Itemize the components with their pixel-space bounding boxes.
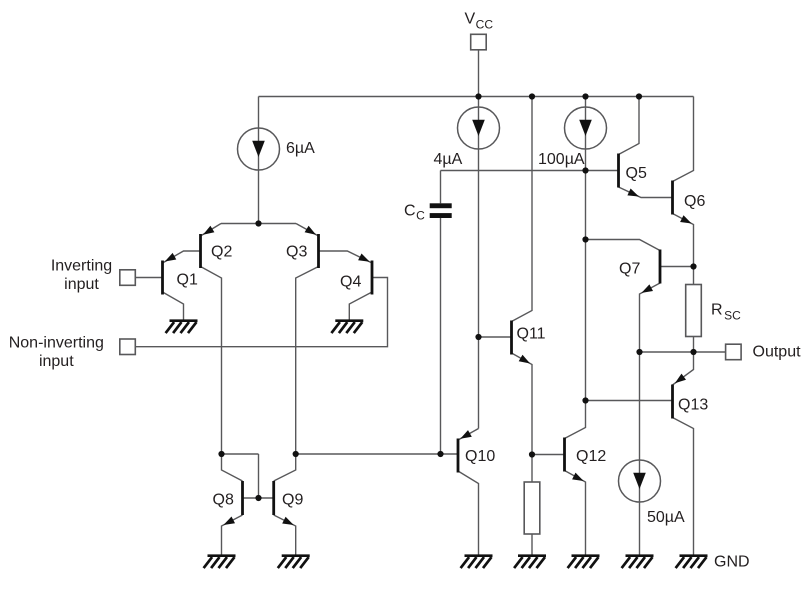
svg-text:Q10: Q10 — [465, 448, 495, 465]
svg-text:RSC: RSC — [711, 302, 741, 323]
svg-text:Q8: Q8 — [213, 492, 234, 509]
svg-text:Inverting: Inverting — [51, 258, 112, 275]
svg-text:Non-inverting: Non-inverting — [9, 334, 104, 351]
svg-text:Q6: Q6 — [684, 193, 705, 210]
svg-text:Q2: Q2 — [211, 244, 232, 261]
svg-text:GND: GND — [714, 554, 750, 571]
svg-text:VCC: VCC — [465, 11, 494, 32]
svg-text:Q7: Q7 — [619, 261, 640, 278]
svg-text:input: input — [64, 276, 99, 293]
svg-text:CC: CC — [404, 202, 425, 222]
svg-text:Q1: Q1 — [177, 271, 198, 288]
svg-text:100µA: 100µA — [538, 151, 585, 168]
svg-text:Output: Output — [753, 344, 802, 361]
svg-text:input: input — [39, 353, 74, 370]
svg-text:50µA: 50µA — [647, 509, 685, 526]
svg-text:Q9: Q9 — [282, 492, 303, 509]
svg-text:Q12: Q12 — [576, 448, 606, 465]
svg-text:6µA: 6µA — [286, 140, 315, 157]
svg-text:Q13: Q13 — [678, 397, 708, 414]
svg-text:Q11: Q11 — [517, 326, 546, 343]
svg-text:4µA: 4µA — [434, 151, 463, 168]
svg-text:Q3: Q3 — [286, 244, 307, 261]
svg-text:Q5: Q5 — [626, 165, 647, 182]
svg-text:Q4: Q4 — [340, 273, 361, 290]
